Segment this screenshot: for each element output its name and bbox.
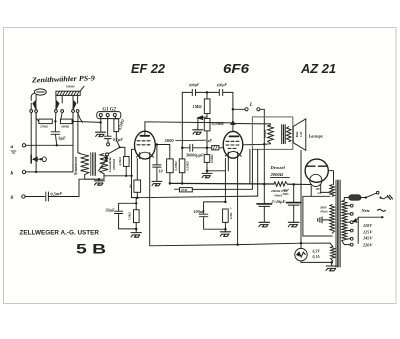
switch (pickup/radio) <box>107 143 110 146</box>
capacitor 16µF (second) <box>286 184 301 222</box>
loudspeaker cone <box>293 119 306 151</box>
wire contacts to resistors <box>36 112 62 121</box>
resistor R-a <box>39 119 53 124</box>
wire switch col to b <box>35 112 37 171</box>
coil PS-9 (hatched) <box>56 91 80 95</box>
node resistor junction <box>54 120 56 122</box>
ground 16µF first <box>259 222 270 227</box>
dial lamp <box>34 89 46 95</box>
svg-text:ZELLWEGER A.-G. USTER: ZELLWEGER A.-G. USTER <box>20 230 100 237</box>
cathode network 6F6 node <box>224 201 227 204</box>
AF transformer primary winding <box>78 153 89 175</box>
switch wiper 2 <box>56 100 59 109</box>
AZ21 filament loop <box>311 185 330 197</box>
tube 6F6 envelope <box>223 131 243 158</box>
wire speaker return <box>300 150 302 243</box>
tube EF22 envelope <box>135 131 156 159</box>
resistor grid leak 6F6 0,5MΩ <box>206 148 208 155</box>
wire choke to AZ21 <box>287 183 311 185</box>
svg-text:0,5mF: 0,5mF <box>50 191 62 197</box>
resistor 7,5kΩ <box>134 210 140 223</box>
svg-text:Netzantenne: Netzantenne <box>74 156 78 176</box>
ground cathode network <box>220 232 230 237</box>
svg-text:2700Ω: 2700Ω <box>39 126 49 129</box>
EF22 screen wire <box>155 145 170 159</box>
bus B <box>192 188 252 190</box>
svg-text:2×16µF: 2×16µF <box>271 199 286 204</box>
svg-text:100µF: 100µF <box>216 83 227 88</box>
wire to 4,7k resistor <box>119 146 121 148</box>
resistor 4,5MΩ <box>115 117 117 119</box>
capacitor 0,1µF <box>104 117 111 143</box>
resistor anode load a <box>167 159 174 173</box>
wire a bus <box>26 144 73 146</box>
pickup jack <box>30 112 32 155</box>
switch contacts row <box>30 110 33 113</box>
6F6 top bar <box>229 135 238 137</box>
svg-text:7,5kΩ: 7,5kΩ <box>127 212 131 221</box>
EF22 anode leg to 90 ohm <box>136 159 138 180</box>
6F6 bottom legs <box>228 152 237 159</box>
coupling capacitor 30000µµF <box>182 144 211 151</box>
resistor R-b <box>60 119 72 124</box>
wire lamp legs <box>31 95 36 100</box>
HV center tap ground <box>318 217 331 223</box>
resistor 4,7kΩ <box>123 157 129 167</box>
ground screen bypass <box>152 181 162 185</box>
connector block G1G2 <box>97 112 121 119</box>
svg-text:ZVR: ZVR <box>181 188 187 192</box>
svg-text:30000µµF: 30000µµF <box>185 153 204 158</box>
wire filament to HV bottom <box>303 196 332 236</box>
EF22 heater leg long <box>149 159 151 246</box>
AF transformer core <box>91 153 96 176</box>
output transformer primary <box>268 124 274 144</box>
resistor 1MΩ <box>206 92 208 99</box>
svg-text:0,1µF: 0,1µF <box>113 137 123 142</box>
svg-text:5000: 5000 <box>165 138 175 143</box>
grid stopper box <box>212 146 219 150</box>
svg-text:90: 90 <box>129 184 133 188</box>
svg-text:EF 22: EF 22 <box>131 62 165 76</box>
wire pot bus <box>104 175 132 177</box>
svg-text:4000Ω: 4000Ω <box>263 129 267 139</box>
6F6 cathode <box>225 152 241 157</box>
wire 6F6 anode to output transformer <box>233 123 270 125</box>
speaker box <box>252 117 292 149</box>
wire AZ21 plate lead <box>328 171 333 185</box>
svg-text:+: + <box>230 207 232 211</box>
svg-text:AZ 21: AZ 21 <box>300 62 336 76</box>
svg-text:a: a <box>11 144 14 150</box>
wire box taps down <box>250 149 258 196</box>
ground between 1M and 0,5M <box>198 114 207 130</box>
wire transformer bottoms <box>85 174 104 180</box>
node 7,5k top <box>135 202 137 204</box>
wire to G1G2 <box>72 121 100 122</box>
svg-text:b: b <box>11 171 14 177</box>
svg-text:0,5MΩ: 0,5MΩ <box>210 154 214 163</box>
voltage selector <box>358 217 382 243</box>
wire top cap row left drop <box>181 92 183 147</box>
resistor 410Ω <box>223 209 229 222</box>
resistor anode load b <box>179 159 185 173</box>
svg-text:5 B: 5 B <box>76 242 106 258</box>
capacitor 100µF <box>199 202 225 229</box>
ground 16µF second <box>288 222 299 227</box>
svg-text:0,5MΩ: 0,5MΩ <box>212 121 225 126</box>
bus D (heater) <box>150 243 330 246</box>
page frame <box>4 28 397 304</box>
resistor 0,5MΩ <box>204 119 210 131</box>
AZ21 filament circle <box>310 174 322 186</box>
ground under AF transformer <box>94 181 104 185</box>
capacitor 50µF <box>114 203 136 229</box>
wire switch col to winding <box>78 112 81 153</box>
capacitor 100µµF <box>219 89 233 131</box>
resistor 90 <box>134 180 141 192</box>
ground grid leak <box>202 173 212 177</box>
capacitor 250µµF <box>182 89 219 95</box>
label ZVR box <box>180 188 193 192</box>
svg-text:Netz: Netz <box>361 208 370 213</box>
primary taps <box>344 206 350 245</box>
wire G1 to ground <box>100 117 102 132</box>
svg-text:100µF: 100µF <box>194 209 205 214</box>
svg-text:6,5V: 6,5V <box>313 250 321 254</box>
wire b bus <box>26 171 73 173</box>
svg-text:Drossel: Drossel <box>270 165 286 170</box>
ground transformer <box>326 262 337 270</box>
winding 6,3V heater <box>330 243 335 262</box>
volume pot winding <box>100 154 108 174</box>
AZ21 anode chord <box>306 165 328 167</box>
EF22 left lead down <box>132 149 137 197</box>
EF22 top cap and grid wire <box>145 122 233 137</box>
svg-text:0,1A: 0,1A <box>313 255 321 259</box>
svg-text:220V: 220V <box>362 242 373 247</box>
svg-text:10000Ω: 10000Ω <box>112 159 116 170</box>
ground 7,5k <box>131 233 141 238</box>
svg-text:µF: µF <box>206 138 213 143</box>
mains switch <box>365 196 367 198</box>
bus A (B+) <box>170 182 274 185</box>
pilot lamp 6,3V <box>295 248 307 260</box>
wire lamp to winding bottom <box>301 261 332 263</box>
wire 6F6 grid return <box>207 170 225 172</box>
switch wiper 1 <box>33 101 36 110</box>
capacitor 6µF <box>51 122 60 145</box>
pot wiper arrow <box>99 160 107 171</box>
svg-text:100000: 100000 <box>66 86 75 89</box>
EF22 internal grids <box>137 141 150 145</box>
svg-text:4,7kΩ: 4,7kΩ <box>118 157 122 167</box>
svg-text:45mA: 45mA <box>319 209 328 213</box>
wire bus C (screen supply) <box>132 196 258 198</box>
svg-text:6F6: 6F6 <box>223 62 250 76</box>
svg-text:410Ω: 410Ω <box>229 212 233 221</box>
svg-text:0,1MΩ: 0,1MΩ <box>186 161 190 171</box>
fuse <box>344 198 349 201</box>
winding 8V (rectifier heater) <box>330 185 335 197</box>
svg-text:6µF: 6µF <box>59 136 67 141</box>
svg-text:0: 0 <box>11 195 14 201</box>
ground under G1 <box>96 132 106 136</box>
svg-text:2000Ω: 2000Ω <box>270 172 284 177</box>
capacitor 16µF (first) <box>257 144 272 222</box>
wire switch col to a-bus <box>72 112 74 171</box>
svg-text:L: L <box>249 103 253 108</box>
wire L link <box>233 108 245 110</box>
winding 300V HT <box>330 205 335 234</box>
svg-text:500V: 500V <box>283 192 291 196</box>
wire 6F6 screen to node <box>243 143 264 146</box>
svg-text:Lautspr.: Lautspr. <box>308 134 324 139</box>
svg-text:1MΩ: 1MΩ <box>193 104 203 109</box>
wire 0 to ground <box>48 179 99 196</box>
svg-text:50µF: 50µF <box>106 208 115 213</box>
svg-text:6000Ω: 6000Ω <box>62 126 71 129</box>
svg-text:10: 10 <box>159 169 163 174</box>
winding mains primary <box>342 200 347 244</box>
junction triangle grid 6F6 <box>231 121 235 125</box>
output transformer secondary <box>287 127 291 142</box>
capacitor 0,5mF <box>25 192 48 201</box>
6F6 internal grids <box>226 141 239 148</box>
capacitor 10 (screen bypass) <box>153 146 161 182</box>
svg-text:999µF: 999µF <box>189 83 200 88</box>
output transformer core <box>282 125 286 144</box>
switch wiper 3 <box>73 100 76 109</box>
svg-text:110V: 110V <box>363 223 373 228</box>
EF22 bottom legs <box>140 153 150 159</box>
tube AZ21 envelope <box>305 159 328 182</box>
EF22 cathode <box>136 152 153 157</box>
svg-text:0,3MΩ: 0,3MΩ <box>174 161 178 171</box>
power transformer core <box>336 180 340 267</box>
svg-text:125V: 125V <box>363 229 373 234</box>
svg-text:145V: 145V <box>363 236 373 241</box>
choke Drossel 2000Ω <box>274 182 288 187</box>
svg-text:14W: 14W <box>299 131 303 137</box>
